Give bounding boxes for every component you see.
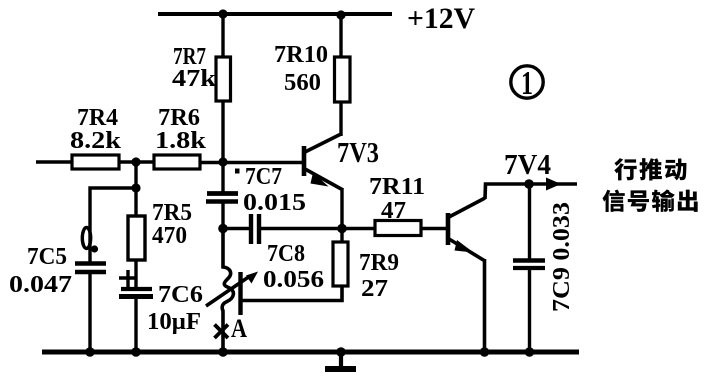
svg-text:+12V: +12V bbox=[407, 2, 475, 35]
svg-text:8.2k: 8.2k bbox=[70, 128, 122, 154]
svg-text:10μF: 10μF bbox=[147, 309, 201, 335]
coil adjustable winding bbox=[222, 228, 233, 352]
wire C7 to node C bbox=[221, 202, 224, 230]
label 7V4 bbox=[504, 149, 551, 181]
svg-text:0.047: 0.047 bbox=[9, 272, 72, 298]
label 470 bbox=[152, 223, 187, 249]
svg-text:47: 47 bbox=[381, 198, 406, 224]
wire node C to C8 bbox=[223, 227, 250, 231]
svg-text:7V4: 7V4 bbox=[504, 149, 551, 181]
svg-text:7C8: 7C8 bbox=[267, 241, 305, 267]
svg-text:1.8k: 1.8k bbox=[155, 128, 207, 154]
label 7R5 bbox=[152, 200, 192, 226]
ground symbol bbox=[325, 352, 356, 369]
coil core bar bbox=[238, 272, 242, 315]
transistor 7V4 bbox=[448, 198, 485, 261]
label 560 bbox=[284, 70, 321, 96]
wire R5 to C6 bbox=[134, 260, 137, 289]
wire R6 to V3 base bbox=[200, 161, 303, 165]
svg-text:7V3: 7V3 bbox=[337, 137, 379, 169]
svg-text:0.015: 0.015 bbox=[243, 190, 306, 216]
label output text line1 行推动 bbox=[614, 158, 686, 180]
wire R7 to node B bbox=[221, 101, 224, 164]
label node A bbox=[231, 314, 247, 343]
wire V4 emitter to ground bbox=[483, 259, 487, 352]
node junction C7/C8/coil bbox=[218, 224, 228, 234]
output arrow bbox=[546, 178, 561, 191]
label 7C6 bbox=[158, 282, 203, 308]
label 27 bbox=[361, 276, 388, 302]
wire R10 to V3 collector bbox=[339, 102, 342, 136]
resistor 7R11 bbox=[375, 221, 421, 236]
capacitor 7C9 bbox=[513, 261, 545, 269]
wire V4 collector to output bbox=[485, 184, 577, 199]
wire node to R5 branch bbox=[134, 162, 137, 188]
node junction emitter/C8/R9/R11 bbox=[337, 224, 347, 234]
node junction ground/symbol bbox=[336, 347, 346, 357]
label 7R4 bbox=[77, 105, 118, 131]
svg-text:7C7: 7C7 bbox=[245, 164, 282, 190]
node junction C5/R5 branch bbox=[131, 183, 140, 192]
node junction ground/C6 bbox=[131, 347, 141, 357]
resistor 7R5 bbox=[128, 216, 145, 260]
svg-text:47k: 47k bbox=[172, 66, 217, 92]
label 7R11 bbox=[369, 174, 425, 200]
label 47 bbox=[381, 198, 406, 224]
node junction ground/C5 bbox=[85, 347, 95, 357]
resistor 7R4 bbox=[72, 155, 119, 169]
label 0.047 bbox=[9, 272, 72, 298]
wire input left bbox=[36, 160, 73, 164]
wire C8 to node D bbox=[261, 227, 342, 231]
label 47k bbox=[172, 66, 217, 92]
label 7R9 bbox=[359, 250, 399, 276]
label 7C5 bbox=[27, 244, 67, 270]
capacitor 7C7 bbox=[206, 194, 238, 202]
svg-text:27: 27 bbox=[361, 276, 388, 302]
node A cross mark bbox=[215, 325, 229, 339]
wire R4 to R6 bbox=[119, 160, 155, 164]
svg-text:7C6: 7C6 bbox=[158, 282, 203, 308]
node junction top rail / R7 bbox=[218, 9, 227, 18]
transistor 7V3 bbox=[304, 134, 343, 190]
label 7R10 bbox=[274, 42, 328, 68]
node junction R4/R6/R5 bbox=[131, 157, 140, 166]
svg-text:0.056: 0.056 bbox=[263, 267, 324, 293]
wire node D to R9 bbox=[340, 228, 343, 243]
label output text line2 信号输出 bbox=[602, 189, 697, 212]
node junction output/C9 bbox=[524, 179, 534, 189]
node junction ground/coil bbox=[218, 347, 228, 357]
svg-text:7R9: 7R9 bbox=[359, 250, 399, 276]
label 0.015 bbox=[243, 190, 306, 216]
label 7R7 bbox=[173, 44, 206, 70]
stray loop mark on C5 wire bbox=[82, 228, 98, 253]
label 7V3 bbox=[337, 137, 379, 169]
resistor 7R7 bbox=[216, 57, 231, 101]
label 7R6 bbox=[158, 105, 200, 131]
wire ground rail bbox=[42, 350, 579, 355]
svg-text:7C9 0.033: 7C9 0.033 bbox=[549, 202, 575, 312]
adjust arrow bbox=[206, 272, 258, 307]
svg-text:7R10: 7R10 bbox=[274, 42, 328, 68]
resistor 7R9 bbox=[333, 242, 348, 286]
svg-text:A: A bbox=[231, 314, 247, 343]
wire C5 to ground bbox=[88, 272, 91, 352]
label 1.8k bbox=[155, 128, 207, 154]
capacitor 7C8 bbox=[251, 214, 259, 244]
svg-text:7R11: 7R11 bbox=[369, 174, 425, 200]
node junction ground/V4 emitter bbox=[480, 347, 490, 357]
wire rail to R7 bbox=[221, 14, 224, 58]
wire C6 to ground bbox=[134, 297, 137, 352]
capacitor 7C6 bbox=[119, 289, 153, 297]
node junction top rail / R10 bbox=[336, 10, 345, 19]
wire branch to R5 bbox=[134, 188, 137, 217]
wire V3 emitter down bbox=[340, 188, 343, 230]
figure number circle 1 bbox=[511, 65, 543, 102]
capacitor 7C5 bbox=[75, 264, 106, 273]
label 8.2k bbox=[70, 128, 122, 154]
wire R11 to V4 base bbox=[421, 227, 447, 231]
stray dot near C7 label bbox=[235, 169, 240, 174]
wire node D to R11 bbox=[342, 227, 376, 231]
wire branch to C5 column bbox=[90, 188, 136, 262]
svg-text:1: 1 bbox=[521, 65, 533, 102]
wire R9 to coil tap bbox=[242, 286, 342, 301]
wire C9 to ground bbox=[528, 268, 531, 352]
wire rail to R10 bbox=[339, 15, 342, 58]
svg-text:560: 560 bbox=[284, 70, 321, 96]
capacitor 7C6 polarity + bbox=[119, 270, 136, 287]
label 10uF bbox=[147, 309, 201, 335]
label 7C8 bbox=[267, 241, 305, 267]
node junction R6/R7/C7 bbox=[218, 157, 227, 166]
label 7C9 0.033 vertical bbox=[549, 202, 575, 312]
wire output to C9 bbox=[528, 184, 531, 260]
resistor 7R10 bbox=[335, 57, 351, 102]
resistor 7R6 bbox=[154, 155, 200, 169]
label 7C7 bbox=[245, 164, 282, 190]
svg-text:470: 470 bbox=[152, 223, 187, 249]
wire +12V top rail bbox=[158, 12, 392, 16]
node junction ground/C9 bbox=[525, 347, 535, 357]
label +12V bbox=[407, 2, 475, 35]
svg-text:7C5: 7C5 bbox=[27, 244, 67, 270]
wire node B to C7 bbox=[221, 162, 224, 193]
label 0.056 bbox=[263, 267, 324, 293]
